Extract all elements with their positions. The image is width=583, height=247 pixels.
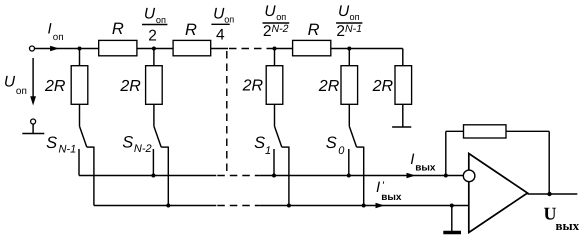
switch S_1: left throw wire to upper bus <box>273 149 275 176</box>
resistor 2R branch 2 (2R) <box>146 66 163 105</box>
wire: top rail R2 to break <box>211 48 228 50</box>
arrowhead I-prime_vyh <box>376 203 385 208</box>
svg-text:2R: 2R <box>242 78 264 95</box>
svg-text:U: U <box>4 74 16 91</box>
wire: upper output bus I_vyh (solid left part) <box>79 175 216 177</box>
op-amp U1 triangle <box>469 154 528 233</box>
switch S_0: right throw wire to lower bus <box>363 147 365 206</box>
wire: output of op-amp <box>528 193 578 195</box>
svg-text:2R: 2R <box>44 78 66 95</box>
resistor 2R branch 1 (2R) <box>71 66 88 105</box>
svg-text:U: U <box>144 6 156 23</box>
svg-text:I: I <box>376 179 380 196</box>
ground terminal lower-left: bar <box>22 133 44 135</box>
arrowhead I_op <box>50 46 59 51</box>
resistor R3 <box>293 40 331 55</box>
dashed separator line (omitted stages) <box>226 51 228 174</box>
svg-text:оп: оп <box>53 32 64 43</box>
junction dot: feedback tap on upper bus <box>444 174 448 178</box>
arrowhead U_op <box>30 96 36 105</box>
svg-text:оп: оп <box>350 12 360 22</box>
wire: top rail break to 2R branch 3 <box>267 48 293 50</box>
switch S_N-2: lever <box>154 126 161 147</box>
op-amp summing-node circle (inverting input) <box>463 170 475 182</box>
svg-text:оп: оп <box>276 12 286 22</box>
ground bar under terminator 2R <box>392 126 411 128</box>
svg-text:оп: оп <box>224 14 234 24</box>
resistor 2R branch 3 (2R) <box>266 66 283 105</box>
svg-text:S: S <box>254 134 265 152</box>
wire: lower output bus to op-amp non-inverting input <box>260 205 469 207</box>
switch S_N-1: left throw wire to upper bus <box>78 149 80 176</box>
svg-text:N-1: N-1 <box>345 23 362 35</box>
junction dot: S_N-2 left throw on upper bus <box>151 174 155 178</box>
resistor 2R branch 4 (2R) <box>341 66 358 105</box>
wire: rail to resistor 2R-1 <box>79 49 81 66</box>
wire: corner down to terminator 2R <box>402 49 404 66</box>
node B junction dot (top rail / 2R branch 2) <box>152 47 156 51</box>
node E junction dot (top rail / 2R branch 4) <box>347 47 351 51</box>
wire: feedback right drop to output node <box>548 131 550 194</box>
junction dot: S_0 left throw on upper bus <box>347 174 351 178</box>
wire: lower output bus dashed break <box>217 205 259 207</box>
svg-text:вых: вых <box>556 218 580 233</box>
resistor 2R terminator <box>395 66 412 105</box>
svg-text:2: 2 <box>263 23 272 40</box>
wire: ground stem at non-inverting input <box>451 206 453 232</box>
svg-text:4: 4 <box>216 27 225 44</box>
wire: terminator 2R to ground <box>402 104 404 127</box>
switch S_N-1: right throw wire to lower bus <box>93 147 95 206</box>
svg-text:0: 0 <box>338 145 345 157</box>
wire: rail to resistor 2R-2 <box>153 49 155 66</box>
resistor R1 <box>99 40 137 55</box>
junction dot: S_1 right throw on lower bus <box>287 204 291 208</box>
junction dot: S_0 right throw on lower bus <box>362 204 366 208</box>
svg-text:вых: вых <box>381 192 402 203</box>
svg-text:2R: 2R <box>318 78 340 95</box>
svg-text:2R: 2R <box>372 78 394 95</box>
svg-text:R: R <box>112 20 124 38</box>
svg-text:S: S <box>122 133 133 151</box>
switch S_0: lever <box>349 126 356 147</box>
wire: feedback top left segment <box>446 130 464 132</box>
wire: upper output bus dashed break <box>217 175 259 177</box>
arrowhead I_vyh <box>407 173 416 178</box>
wire: rail to resistor 2R-4 <box>348 49 350 66</box>
svg-text:S: S <box>326 134 337 152</box>
switch S_N-2: right throw wire to lower bus <box>167 147 169 206</box>
svg-text:N-1: N-1 <box>59 144 77 156</box>
switch S_N-2: lever tip jog <box>161 146 168 148</box>
svg-text:2R: 2R <box>119 78 141 95</box>
ground terminal lower-left: stem <box>32 124 34 134</box>
switch S_0: lever tip jog <box>357 146 364 148</box>
svg-text:I: I <box>410 151 414 168</box>
wire: top rail, terminal to R1 <box>35 48 99 50</box>
feedback resistor R_fb <box>464 125 507 138</box>
node D junction dot (top rail / 2R branch 3) <box>273 47 277 51</box>
wire: top rail R1 to R2 <box>137 48 173 50</box>
input terminal (I_op source) <box>30 46 35 51</box>
svg-text:вых: вых <box>415 162 436 173</box>
wire: resistor 2R-4 to switch pivot <box>348 104 350 126</box>
svg-text:S: S <box>46 134 57 152</box>
wire: resistor 2R-3 to switch pivot <box>274 104 276 126</box>
wire: feedback top right segment <box>506 130 549 132</box>
svg-text:оп: оп <box>16 86 27 97</box>
svg-text:2: 2 <box>336 23 345 40</box>
wire: lower output bus I-prime_vyh (solid left part) <box>94 205 216 207</box>
switch S_1: lever <box>275 126 282 147</box>
svg-text:R: R <box>185 21 197 39</box>
ground terminal lower-left: circle <box>31 119 36 124</box>
svg-text:I: I <box>48 21 52 38</box>
wire: feedback left drop from summing node <box>445 131 447 175</box>
svg-text:N-2: N-2 <box>134 143 152 155</box>
wire: U_op voltage arrow (down) <box>32 58 34 100</box>
ground bar at non-inverting input <box>443 231 461 234</box>
wire: resistor 2R-1 to switch pivot <box>79 104 81 126</box>
wire: upper output bus to op-amp summing node <box>260 175 464 177</box>
svg-text:R: R <box>308 21 320 39</box>
node A junction dot (top rail / 2R branch 1) <box>78 47 82 51</box>
svg-text:U: U <box>264 3 276 20</box>
output junction dot (node U_vyh) <box>547 192 551 196</box>
junction dot: S_1 left throw on upper bus <box>272 174 276 178</box>
switch S_N-1: lever <box>80 126 87 147</box>
junction dot: S_N-2 right throw on lower bus <box>166 204 170 208</box>
wire: top rail dashed continuation (omitted stages) <box>229 48 267 50</box>
junction dot: non-inverting input / ground tap <box>450 204 454 208</box>
switch S_1: lever tip jog <box>282 146 289 148</box>
svg-text:U: U <box>338 3 350 20</box>
svg-text:N-2: N-2 <box>272 23 289 35</box>
svg-text:2: 2 <box>148 27 157 44</box>
switch S_1: right throw wire to lower bus <box>288 147 290 206</box>
wire: top rail R3 to terminator corner <box>331 48 403 50</box>
svg-text:оп: оп <box>156 15 166 25</box>
wire: resistor 2R-2 to switch pivot <box>153 104 155 126</box>
wire: rail to resistor 2R-3 <box>274 49 276 66</box>
switch S_N-2: left throw wire to upper bus <box>152 149 154 176</box>
svg-text:1: 1 <box>265 145 271 157</box>
resistor R2 <box>173 40 211 55</box>
switch S_N-1: lever tip jog <box>87 146 94 148</box>
switch S_0: left throw wire to upper bus <box>348 149 350 176</box>
